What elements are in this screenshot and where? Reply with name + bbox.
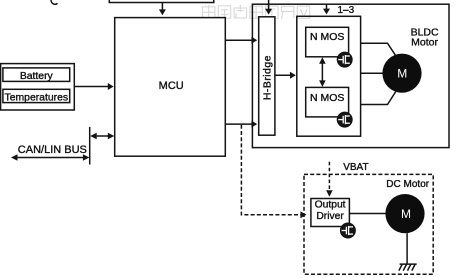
wire: Output Driver to DC motor bbox=[349, 213, 386, 215]
wire: H-Bridge to MOS stage arrow bbox=[275, 74, 292, 76]
DC motor M2 bbox=[385, 194, 424, 233]
svg-text:Motor: Motor bbox=[411, 37, 438, 49]
wire: MOS stage to BLDC motor phase A bbox=[361, 43, 396, 56]
cropped box at top feeding MCU bbox=[109, 0, 214, 3]
transistor symbol Q2 bbox=[337, 112, 353, 128]
DC motor dashed enclosure bbox=[304, 174, 433, 274]
transistor symbol Q1 bbox=[337, 52, 353, 68]
wire: double arrow between N MOS blocks bbox=[321, 60, 323, 83]
svg-text:DC Motor: DC Motor bbox=[386, 179, 429, 190]
svg-text:N MOS: N MOS bbox=[310, 31, 344, 43]
wire: MCU to H-Bridge lower arrow bbox=[225, 123, 253, 125]
stray curve mark top-left (cropped glyph) bbox=[51, 0, 57, 4]
N MOS block 2 bbox=[306, 87, 349, 117]
wire: VBAT dashed supply arrow bbox=[328, 162, 330, 191]
wire: DC motor to ground bbox=[406, 233, 408, 264]
wire: MOS stage to BLDC motor phase C bbox=[361, 92, 396, 105]
MCU block bbox=[115, 18, 226, 157]
BLDC motor M1 bbox=[382, 54, 421, 93]
svg-text:Battery: Battery bbox=[20, 71, 54, 82]
svg-text:N MOS: N MOS bbox=[310, 92, 344, 104]
sensor group container bbox=[1, 64, 75, 110]
Output Driver block bbox=[311, 199, 350, 227]
wire: arrow from top box into MCU bbox=[161, 3, 163, 11]
wire: bus to MCU double arrow bbox=[94, 135, 112, 137]
watermark (faint gray CJK text approximation) bbox=[203, 5, 310, 20]
wire: sensors to MCU arrow bbox=[74, 86, 109, 88]
svg-text:VBAT: VBAT bbox=[343, 162, 368, 173]
wire: arrow from outer box top into MOS box bbox=[326, 4, 328, 9]
N MOS block 1 bbox=[306, 27, 349, 57]
svg-text:MCU: MCU bbox=[159, 80, 184, 92]
Battery block bbox=[3, 68, 70, 82]
wire: MOS stage to BLDC motor phase B bbox=[361, 72, 384, 74]
svg-text:M: M bbox=[401, 207, 411, 221]
wire: CAN/LIN bus double arrow bbox=[15, 157, 87, 159]
wire: arrow from top into H-Bridge bbox=[268, 0, 270, 10]
transistor symbol Q3 bbox=[340, 223, 356, 239]
svg-text:H-Bridge: H-Bridge bbox=[261, 55, 273, 100]
svg-text:1–3: 1–3 bbox=[338, 5, 355, 16]
svg-text:M: M bbox=[397, 67, 407, 81]
Temperatures block bbox=[3, 89, 70, 102]
MOS stage inner box bbox=[297, 16, 361, 136]
ground bbox=[399, 264, 417, 271]
wire: MCU to H-Bridge upper arrow bbox=[225, 39, 253, 41]
BLDC driver outer box bbox=[252, 4, 449, 147]
wire: dashed MCU output to DC motor box bbox=[241, 125, 300, 215]
svg-text:Output: Output bbox=[315, 200, 346, 211]
node: bus terminal vertical line bbox=[89, 127, 91, 165]
svg-text:Temperatures: Temperatures bbox=[5, 92, 69, 103]
H-Bridge block bbox=[259, 17, 275, 135]
svg-text:CAN/LIN BUS: CAN/LIN BUS bbox=[18, 144, 87, 156]
svg-text:Driver: Driver bbox=[316, 211, 344, 222]
